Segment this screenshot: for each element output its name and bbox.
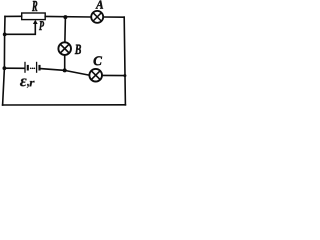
wire : top-left lead from corner to resistor R — [5, 15, 22, 17]
label R — [32, 1, 37, 11]
wire : resistor right lead to lamp A — [45, 15, 90, 18]
wire : battery to node under lamp B — [41, 69, 65, 71]
label epsilon (emf) — [20, 78, 27, 86]
node : junction dot under lamp B on battery row — [63, 68, 67, 72]
node : junction dot on top wire at lamp B branch — [63, 15, 67, 19]
node : junction dot on left vertical at wiper wire — [3, 33, 7, 37]
label r (internal resistance) — [29, 81, 34, 87]
label A — [95, 1, 103, 9]
wire : battery row from left vertical to battery — [4, 67, 24, 69]
label P — [39, 21, 44, 30]
wire : lamp A right lead to right vertical — [104, 16, 124, 18]
wire : lamp B branch upper segment — [64, 17, 67, 41]
wiper arrowhead of rheostat P — [33, 20, 38, 24]
wire : right vertical from lamp A level down to bottom wire — [124, 17, 125, 105]
node : junction dot at lamp C right lead on right vertical — [123, 74, 126, 77]
resistor R (rheostat box) — [22, 13, 46, 20]
node : junction dot on left vertical at battery wire — [3, 66, 7, 70]
wire : lamp C right lead to right vertical — [103, 74, 125, 76]
battery cells (epsilon, r) — [25, 62, 40, 73]
wire : bottom horizontal return wire — [3, 104, 126, 106]
wire : node under lamp B to lamp C — [65, 70, 89, 75]
label C — [94, 56, 102, 65]
lamp A (circle with X) — [91, 11, 103, 23]
wire : left vertical from top-left corner down to bottom wire — [3, 16, 5, 105]
wire : lamp B branch lower segment — [64, 56, 66, 71]
lamp C (circle with X) — [89, 69, 102, 82]
label comma — [27, 84, 29, 88]
lamp B (circle with X) — [58, 42, 71, 55]
wire : rheostat wiper connection to left vertical — [5, 23, 36, 35]
label B — [75, 45, 81, 54]
